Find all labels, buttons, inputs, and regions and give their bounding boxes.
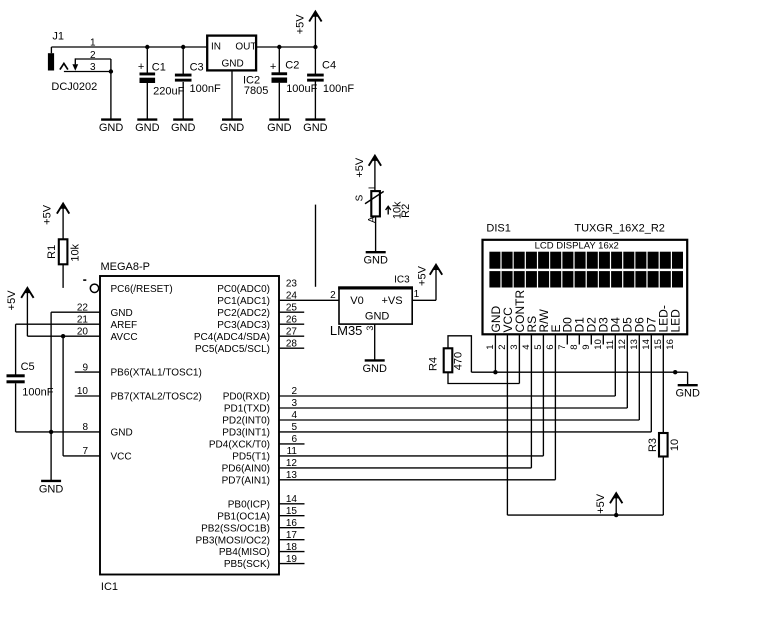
R2 wiper diagonal [365,191,384,203]
svg-text:9: 9 [581,344,592,349]
svg-text:S: S [354,194,365,201]
wire C3 top lead [182,47,184,74]
svg-text:LM35: LM35 [330,323,363,338]
wire J1 jack stem [50,47,52,53]
svg-text:GND: GND [675,388,700,400]
svg-text:TUXGR_16X2_R2: TUXGR_16X2_R2 [574,222,665,234]
ground LM35 [362,360,387,374]
svg-text:12: 12 [617,339,628,350]
svg-text:PB6(XTAL1/TOSC1): PB6(XTAL1/TOSC1) [111,368,202,379]
svg-text:10k: 10k [69,243,81,261]
svg-text:100nF: 100nF [22,387,53,399]
svg-text:IN: IN [211,42,221,53]
wire J1 pin1 to regulator IN (+raw rail) [51,46,207,48]
svg-text:VCC: VCC [111,452,132,463]
svg-text:R3: R3 [647,438,659,452]
junction C4 / +5V arrow [313,45,317,49]
wire IC1 pin16 stub [279,527,305,529]
wire J1 pin3 [64,71,111,73]
svg-text:PB0(ICP): PB0(ICP) [228,499,270,510]
svg-text:DIS1: DIS1 [486,222,510,234]
svg-text:15: 15 [653,339,664,350]
svg-text:GND: GND [39,483,64,495]
wire C4 bottom lead [314,81,316,119]
wire VCC branch vertical [62,336,64,456]
svg-text:PD7(AIN1): PD7(AIN1) [222,475,270,486]
svg-text:R4: R4 [428,357,440,371]
svg-text:2: 2 [497,344,508,349]
wire C2 top lead [278,47,280,73]
+5V supply AVCC [6,286,33,336]
wire J1 pin2 down to pin3 [110,59,112,72]
wire GND net vertical left [50,312,52,432]
svg-text:GND: GND [111,308,133,319]
IC1 reset inversion circle [90,284,98,292]
svg-text:GND: GND [362,363,387,375]
ground C2 [267,120,292,134]
display DIS1 LCD box [483,240,688,334]
wire PD7 to LCD E [279,479,555,481]
capacitor C5 [7,374,25,383]
svg-text:PB5(SCK): PB5(SCK) [224,559,270,570]
wire +5V backlight rail [507,514,663,516]
ground C4 [303,120,328,134]
svg-text:13: 13 [629,339,640,350]
+5V supply R2 [354,154,381,191]
svg-text:PD4(XCK/T0): PD4(XCK/T0) [209,440,270,451]
svg-text:GND: GND [220,122,245,134]
svg-text:GND: GND [111,428,133,439]
svg-text:GND: GND [365,310,390,322]
svg-text:R2: R2 [400,204,412,218]
svg-text:+5V: +5V [354,157,366,178]
svg-text:OUT: OUT [235,42,256,53]
+5V supply top rail [294,10,321,47]
wire R2 bottom to ground [375,216,377,251]
wire LM35 +VS to +5V [412,299,436,301]
wire PD0 to LCD D4 [279,395,615,397]
wire IC1 pin18 stub [279,551,305,553]
svg-text:C1: C1 [152,62,166,74]
+5V supply backlight [595,492,622,515]
svg-text:7805: 7805 [244,85,268,97]
junction GND net [49,430,53,434]
ground C3 [171,120,196,134]
svg-text:PD5(T1): PD5(T1) [232,452,270,463]
svg-text:IC3: IC3 [394,274,410,285]
svg-text:+5V: +5V [595,493,607,514]
wire PD2 to LCD D6 [279,419,639,421]
svg-text:PB4(MISO): PB4(MISO) [219,547,270,558]
wire J1 pin2 horizontal [75,58,111,60]
temperature sensor IC3 LM35 box [338,287,413,324]
svg-text:+5V: +5V [6,290,18,311]
svg-text:LED: LED [669,309,683,333]
svg-text:+: + [270,61,276,73]
svg-text:5: 5 [533,344,544,349]
LCD character cells row 1 [489,252,683,269]
wire IC1 pin17 stub [279,539,305,541]
svg-text:7: 7 [557,344,568,349]
svg-text:+: + [138,61,144,73]
svg-text:PB1(OC1A): PB1(OC1A) [217,511,270,522]
+5V supply LM35 [416,263,442,300]
svg-text:GND: GND [221,59,243,70]
wire IC1 pin25 stub [279,311,304,313]
svg-text:1: 1 [414,289,420,300]
wire IC1 pin14 stub [279,503,305,505]
wire IC2 GND pin down [231,70,233,119]
wire PD1 to LCD D5 [279,407,627,409]
svg-text:470: 470 [453,352,465,370]
svg-text:23: 23 [286,279,298,290]
svg-text:PB3(MOSI/OC2): PB3(MOSI/OC2) [196,535,270,546]
svg-text:14: 14 [641,339,652,350]
ground left GND net [39,481,64,495]
svg-text:2: 2 [330,290,336,301]
capacitor C4 [307,74,324,82]
svg-text:LCD DISPLAY 16x2: LCD DISPLAY 16x2 [535,240,619,251]
junction C2 top [277,45,281,49]
svg-text:PB7(XTAL2/TOSC2): PB7(XTAL2/TOSC2) [111,392,202,403]
svg-text:100uF: 100uF [286,83,317,95]
wire IC1 pin21 AREF to C5 [16,323,100,325]
svg-text:+5V: +5V [41,204,53,225]
wire C2 bottom lead [278,83,280,119]
svg-text:C3: C3 [190,62,204,74]
svg-text:MEGA8-P: MEGA8-P [101,261,151,273]
wire IC1 pin7 VCC [63,455,100,457]
wire IC1 pin10 stub [75,395,100,397]
wire LCD pin15 to R3 [662,334,664,433]
floating wiper net wire [315,205,317,287]
wire LCD pin 8 stub [578,334,580,344]
svg-text:PC3(ADC3): PC3(ADC3) [217,320,270,331]
svg-text:C5: C5 [21,361,35,373]
wire IC1 pin27 stub [279,335,304,337]
svg-text:PC4(ADC4/SDA): PC4(ADC4/SDA) [194,332,270,343]
wire PD3 to LCD D7 [279,431,651,433]
junction AVCC/VCC branch [61,334,65,338]
wire C3 bottom lead [182,82,184,119]
resistor R1 [59,239,68,264]
wire LCD pin 10 stub [602,334,604,344]
wire IC1 pin26 stub [279,323,304,325]
wire C5 top lead [15,324,17,375]
svg-text:GND: GND [363,255,388,267]
svg-text:R1: R1 [46,245,58,259]
svg-text:L: L [367,183,378,189]
wire LCD pin1 GND drop [494,334,496,372]
svg-text:PD1(TXD): PD1(TXD) [224,404,270,415]
svg-text:PD0(RXD): PD0(RXD) [223,392,270,403]
junction +5V arrow on backlight rail [614,513,618,517]
LCD character cells row 2 [489,271,683,287]
svg-text:PD2(INT0): PD2(INT0) [222,416,270,427]
wire IC1 pin8 GND [16,431,100,433]
wire R1 bottom dangling lead [62,264,64,288]
wire GND net down to symbol [50,432,52,480]
wire IC1 pin22 GND [51,311,100,313]
svg-text:PC6(/RESET): PC6(/RESET) [111,284,173,295]
svg-text:AREF: AREF [111,320,138,331]
wire J1 pin2 drop [74,58,76,64]
svg-text:3: 3 [509,344,520,349]
junction C3 top [181,45,185,49]
resistor R3 [659,433,668,457]
svg-text:GND: GND [99,122,124,134]
wire J1 ground drop [110,72,112,120]
microcontroller IC1 MEGA8-P box [100,276,279,575]
wire C1 top lead [146,47,148,73]
+5V supply R1 [41,202,69,239]
svg-text:IC1: IC1 [101,581,118,593]
svg-text:PC5(ADC5/SCL): PC5(ADC5/SCL) [195,344,270,355]
svg-text:C2: C2 [285,60,299,72]
wire C1 bottom lead [146,83,148,119]
wire LM35 GND pin down [374,324,376,360]
wire LCD pin 7 stub [566,334,568,344]
wire R3 bottom lead [662,457,664,516]
wire IC1 pin20 AVCC from +5V [27,335,100,337]
wire LCD pin2 VCC drop [506,334,508,515]
wire C4 top lead [314,47,316,74]
ground J1 [99,120,124,134]
ground LCD [675,385,700,399]
svg-text:220uF: 220uF [153,85,184,97]
svg-text:GND: GND [135,122,160,134]
wire R4 bottom to LCD CONTR [448,372,519,383]
svg-text:+5V: +5V [416,265,428,286]
wire LCD pin 9 stub [590,334,592,344]
svg-text:4: 4 [521,344,532,349]
capacitor C2 [270,61,287,83]
svg-text:100nF: 100nF [190,83,221,95]
svg-text:+5V: +5V [294,14,306,35]
wire IC1 pin28 stub [279,347,304,349]
junction LCD pin1 on GND wire [493,370,497,374]
svg-text:DCJ0202: DCJ0202 [51,81,97,93]
connector J1 DC jack symbol [48,53,78,71]
svg-text:PD3(INT1): PD3(INT1) [222,428,270,439]
wire LCD pin3 CONTR drop [518,334,520,383]
junction C1 top [145,45,149,49]
svg-text:100nF: 100nF [323,83,354,95]
svg-text:10: 10 [669,439,681,451]
svg-text:PC1(ADC1): PC1(ADC1) [217,296,270,307]
svg-text:J1: J1 [52,30,64,42]
wire C5 bottom lead [15,383,17,432]
svg-text:GND: GND [267,122,292,134]
op-amp IC2 voltage regulator 7805 box [207,36,256,71]
svg-text:10: 10 [593,339,604,350]
wire IC1 pin19 stub [279,563,305,565]
svg-text:PB2(SS/OC1B): PB2(SS/OC1B) [201,523,270,534]
stray mark near reset pin [83,279,86,281]
svg-text:PD6(AIN0): PD6(AIN0) [222,464,270,475]
capacitor C3 [175,74,192,82]
svg-text:11: 11 [605,340,616,350]
svg-text:8: 8 [569,344,580,349]
wire PD5 to LCD R/W [279,455,543,457]
svg-text:GND: GND [303,122,328,134]
junction LCD pin16 on GND wire [673,370,677,374]
svg-text:C4: C4 [322,60,336,72]
trimmer resistor R2 body [371,191,380,216]
junction J1 pin2/pin3 [109,69,113,73]
wire GND net drop right [687,372,689,384]
svg-text:16: 16 [665,339,676,350]
wire IC1 pin24 PC1 to LM35 [279,299,339,301]
wire IC1 pin9 stub [75,371,100,373]
wire IC1 pin6 PD4 stub [279,443,305,445]
svg-text:PC2(ADC2): PC2(ADC2) [217,308,270,319]
wire IC1 pin15 stub [279,515,305,517]
ground IC2 [220,120,245,134]
svg-text:GND: GND [171,122,196,134]
ground R2 [363,252,388,266]
svg-text:V0: V0 [350,295,363,307]
svg-text:PC0(ADC0): PC0(ADC0) [217,284,270,295]
ground C1 [135,120,160,134]
svg-text:+VS: +VS [382,295,403,307]
svg-text:3: 3 [365,326,375,331]
svg-text:1: 1 [485,344,496,349]
wire GND net LCD [471,371,687,373]
svg-text:AVCC: AVCC [111,332,138,343]
wire PD6 to LCD RS [279,467,531,469]
R2 wiper arrow [386,206,391,214]
resistor R4 [444,348,453,372]
svg-text:6: 6 [545,344,556,349]
wire R4 top lead to GND wire [448,336,471,372]
capacitor C1 [138,61,155,83]
wire regulator OUT to +5V rail [256,46,315,48]
